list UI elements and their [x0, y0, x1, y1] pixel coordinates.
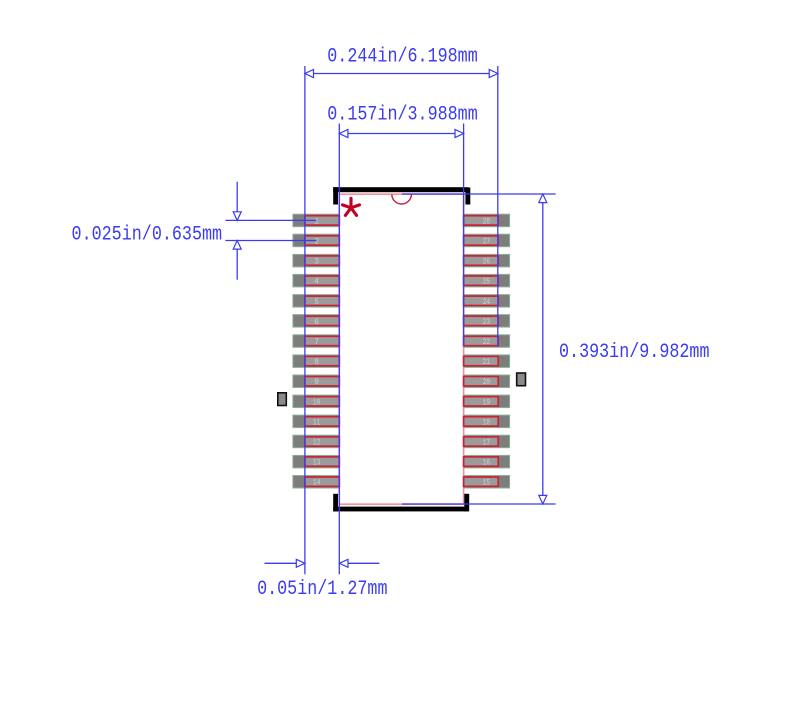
svg-text:0.393in/9.982mm: 0.393in/9.982mm [559, 341, 710, 364]
silkscreen top-left corner bracket [333, 187, 338, 204]
svg-text:14: 14 [313, 479, 321, 488]
svg-text:4: 4 [314, 278, 319, 287]
pad 24 [464, 295, 510, 308]
pitch dimension vertical line upper [233, 182, 241, 221]
pad 17 [464, 435, 510, 448]
extension line left pin extent [304, 66, 306, 574]
pad 10 [293, 395, 340, 408]
pad 14 [293, 476, 340, 489]
extension line 0.393 bottom [402, 503, 556, 505]
pad 9 [293, 375, 340, 388]
pad 20 [464, 375, 510, 388]
pad 4 [293, 274, 340, 287]
pin 1 marker asterisk [343, 198, 360, 215]
svg-text:0.244in/6.198mm: 0.244in/6.198mm [327, 46, 478, 69]
dimension line 0.393in body height [539, 194, 547, 504]
index notch arc [392, 194, 412, 204]
svg-text:28: 28 [483, 217, 491, 226]
svg-text:23: 23 [483, 318, 491, 327]
pad 19 [464, 395, 510, 408]
dimension line 0.244in overall width [305, 70, 498, 78]
svg-text:20: 20 [483, 378, 491, 387]
svg-text:27: 27 [483, 238, 491, 247]
pad 1 [293, 214, 340, 227]
extension line 0.393 top [402, 193, 556, 195]
svg-text:18: 18 [483, 418, 491, 427]
left polarity square marker [278, 393, 287, 406]
pad 26 [464, 254, 510, 267]
pad 7 [293, 335, 340, 348]
svg-text:5: 5 [314, 298, 319, 307]
svg-text:1: 1 [314, 217, 319, 226]
dimension line 0.157in body width [339, 130, 463, 138]
svg-text:3: 3 [314, 258, 319, 267]
svg-text:25: 25 [483, 278, 491, 287]
pad 18 [464, 415, 510, 428]
svg-text:17: 17 [483, 439, 491, 448]
svg-text:6: 6 [314, 318, 319, 327]
svg-text:24: 24 [483, 298, 491, 307]
pitch pointer line pad 1 [225, 219, 316, 221]
svg-text:26: 26 [483, 258, 491, 267]
pad 6 [293, 315, 340, 328]
pad 23 [464, 315, 510, 328]
pad 27 [464, 234, 510, 247]
silkscreen top-right corner bracket [465, 188, 470, 205]
right polarity square marker [517, 373, 526, 386]
pad 2 [293, 234, 340, 247]
svg-text:16: 16 [483, 459, 491, 468]
svg-text:2: 2 [314, 238, 319, 247]
pad 5 [293, 295, 340, 308]
silkscreen bottom-right corner bracket [464, 494, 469, 512]
pad 25 [464, 274, 510, 287]
extension line body left edge [338, 124, 340, 575]
silkscreen bottom bar [333, 507, 468, 512]
pitch pointer line pad 2 [225, 240, 316, 242]
svg-text:12: 12 [313, 439, 321, 448]
pad 15 [464, 476, 510, 489]
pad 21 [464, 355, 510, 368]
pitch dimension vertical line lower [233, 241, 241, 280]
pad 16 [464, 455, 510, 468]
svg-text:19: 19 [483, 398, 491, 407]
svg-text:13: 13 [313, 459, 321, 468]
svg-text:10: 10 [313, 398, 321, 407]
silkscreen bottom-left corner bracket [333, 494, 338, 512]
extension line right pin extent [497, 66, 499, 346]
svg-text:0.05in/1.27mm: 0.05in/1.27mm [257, 578, 387, 601]
pad 12 [293, 435, 340, 448]
svg-text:7: 7 [314, 338, 319, 347]
svg-text:8: 8 [314, 358, 319, 367]
svg-text:15: 15 [483, 479, 491, 488]
svg-text:11: 11 [313, 418, 321, 427]
pad 13 [293, 455, 340, 468]
svg-text:9: 9 [314, 378, 319, 387]
pad 28 [464, 214, 510, 227]
pin length dimension line right part [339, 559, 379, 567]
svg-text:0.157in/3.988mm: 0.157in/3.988mm [327, 103, 478, 126]
pad 8 [293, 355, 340, 368]
pad 11 [293, 415, 340, 428]
extension line body right edge [463, 124, 465, 347]
svg-text:0.025in/0.635mm: 0.025in/0.635mm [72, 223, 223, 246]
svg-text:21: 21 [483, 358, 491, 367]
pin length dimension line left part [265, 559, 305, 567]
IC body outline [339, 194, 463, 504]
pad 22 [464, 335, 510, 348]
silkscreen top bar [333, 187, 468, 192]
pad 3 [293, 254, 340, 267]
svg-text:22: 22 [483, 338, 491, 347]
